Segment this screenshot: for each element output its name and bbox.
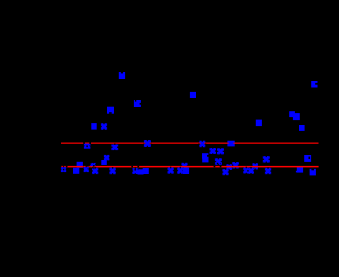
data marker P20 (blue square) [202, 153, 208, 159]
black star XL3 on reference line [131, 163, 139, 171]
black star overlay on P45 [242, 167, 250, 175]
black star overlay on P46 [247, 167, 255, 175]
data marker P40 (blue square) [143, 168, 149, 174]
data marker P2 (blue square) [134, 100, 141, 107]
black notch on P40 [140, 168, 143, 169]
data marker P7 (blue square) [311, 81, 317, 88]
black star overlay on P41 [167, 167, 175, 175]
black notch on P48 [311, 169, 314, 171]
black notch on P1 [121, 72, 123, 74]
black star overlay on P47 [264, 167, 272, 175]
data marker P29 (blue square) [297, 166, 303, 173]
data marker P34 (blue square) [84, 167, 89, 172]
black notch on P2 [140, 103, 142, 105]
data marker P6 (blue square) [190, 92, 196, 98]
data marker P21 (blue square) [202, 157, 208, 162]
data marker P28 (blue square) [252, 163, 258, 169]
data marker P13 (blue square) [111, 144, 118, 150]
black star overlay on P34 [82, 166, 90, 174]
black star overlay on P24 [215, 158, 223, 166]
data marker P15 (blue square) [199, 141, 205, 148]
black notch on P7 [315, 83, 317, 85]
black star overlay on P17 [103, 154, 111, 162]
data marker P43 (blue square) [183, 168, 189, 174]
black notch on P26 [309, 157, 311, 159]
black notch on P3 [109, 112, 112, 114]
data marker P4 (blue square) [91, 123, 96, 130]
data marker P9 (blue square) [293, 113, 300, 120]
data marker P22 (blue square) [210, 148, 217, 154]
black star overlay on P37 [109, 167, 117, 175]
reference line R2 (lower red) [61, 166, 319, 168]
black star overlay on P30 [232, 161, 240, 169]
black star XL5 on reference line [83, 139, 91, 147]
black star overlay on P31 [225, 163, 233, 171]
black star overlay on P13 [111, 143, 119, 151]
black star overlay on P32 [60, 166, 68, 174]
data marker P47 (blue square) [265, 168, 271, 174]
black star overlay on P42 [176, 167, 184, 175]
data marker P24 (blue square) [215, 158, 222, 165]
red line bleed into P15 [199, 143, 201, 144]
red line bleed into P14 [144, 143, 146, 144]
black notch on P2 [135, 100, 136, 102]
black star overlay on P44 [222, 168, 230, 176]
data marker P39 (blue square) [138, 169, 144, 174]
data marker P42 (blue square) [177, 167, 183, 173]
black star overlay on P22 [209, 147, 217, 155]
black star overlay on P35 [91, 167, 99, 175]
data marker P19 (blue square) [77, 162, 83, 168]
data marker P10 (blue square) [256, 120, 262, 127]
data marker P27 (blue square) [181, 163, 187, 169]
data marker P26 (blue square) [304, 155, 311, 162]
reference line R1 (upper red) [61, 143, 319, 144]
black star overlay on P27 [181, 162, 189, 170]
black star overlay on P36 [89, 161, 97, 169]
data marker P31 (blue square) [226, 164, 232, 170]
red line bleed into P16 [227, 143, 229, 144]
data marker P11 (blue square) [299, 125, 305, 131]
black star overlay on P5 [100, 123, 108, 131]
data marker P1 (blue square) [119, 72, 125, 79]
data marker P30 (blue square) [232, 162, 239, 169]
black star overlay on P23 [217, 147, 225, 155]
data marker P37 (blue square) [109, 168, 115, 175]
black notch on P20 [207, 155, 209, 157]
data marker P23 (blue square) [217, 148, 224, 154]
data marker P48 (blue square) [310, 169, 316, 176]
black star overlay on P38 [131, 167, 139, 175]
data marker P35 (blue square) [92, 168, 98, 174]
black star overlay on P28 [251, 162, 259, 170]
data marker P5 (blue square) [101, 123, 107, 130]
data marker P36 (blue square) [90, 163, 96, 166]
black star XL2 on reference line [87, 162, 95, 170]
data marker P12 (blue square) [84, 144, 91, 149]
blue foot on P29 [296, 171, 297, 173]
data marker P32 (blue square) [61, 167, 66, 172]
data marker P3 (blue square) [107, 107, 114, 114]
black star XL1 on reference line [60, 163, 68, 171]
data marker P38 (blue square) [132, 168, 138, 174]
data marker P8 (blue square) [289, 111, 295, 117]
data marker P17 (blue square) [104, 155, 110, 161]
data marker P33 (blue square) [73, 168, 79, 174]
data marker P25 (blue square) [263, 156, 270, 163]
black star overlay on P25 [262, 155, 270, 163]
data marker P44 (blue square) [222, 169, 228, 175]
black star overlay on P14 [144, 140, 152, 148]
data marker P46 (blue square) [248, 168, 254, 174]
data marker P18 (blue square) [101, 160, 107, 165]
data marker P41 (blue square) [168, 167, 174, 173]
data marker P14 (blue square) [144, 140, 151, 147]
data marker P16 (blue square) [227, 141, 234, 147]
black star XL4 on reference line [214, 163, 222, 171]
black star overlay on P15 [198, 140, 206, 148]
data marker P45 (blue square) [243, 168, 249, 174]
